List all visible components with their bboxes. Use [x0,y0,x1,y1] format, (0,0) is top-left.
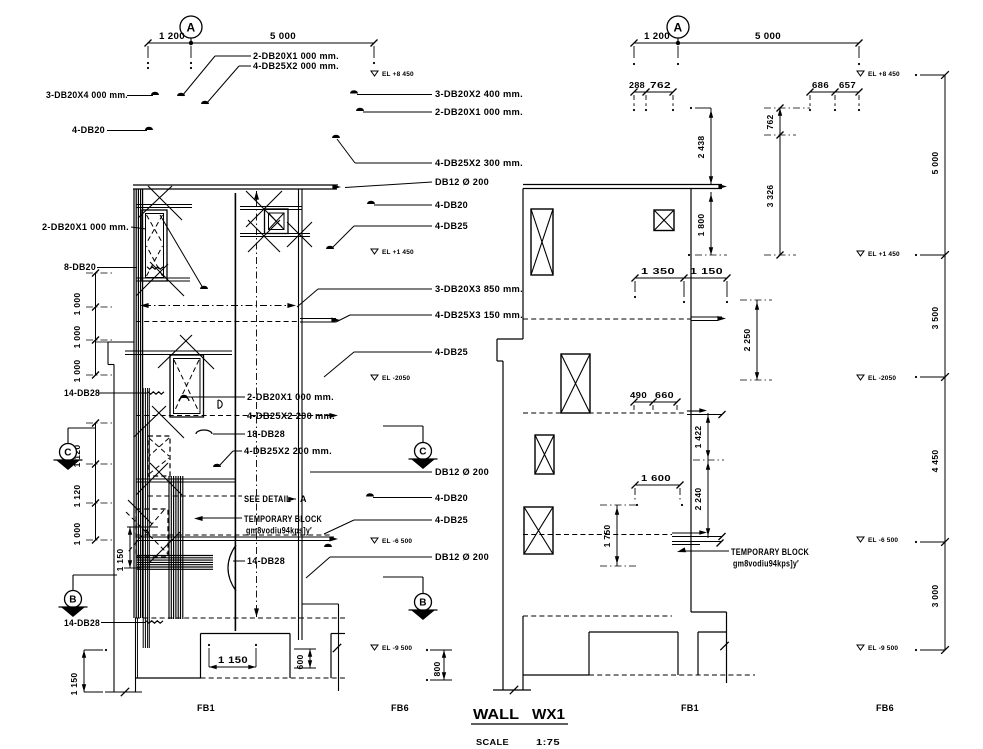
svg-text:288: 288 [629,80,645,90]
svg-text:5 000: 5 000 [930,152,940,175]
left concrete outline with step [107,342,109,365]
right view right wall face [690,189,692,613]
stirrup box B3 (middle, dashed X) [170,355,204,417]
svg-text:762: 762 [650,80,671,90]
svg-text:2 250: 2 250 [742,329,752,352]
svg-text:4 450: 4 450 [930,450,940,473]
level markers EL (right column) [857,71,864,76]
transverse bar pair below slab at B1 [136,204,192,206]
svg-text:3 000: 3 000 [930,585,940,608]
top dimension line right (1 200 / 5 000) [634,42,859,44]
top slab double line (left view) [133,184,338,186]
dim 1 150 (wall, rotated) [129,527,131,568]
svg-text:C: C [64,448,72,459]
dim 1 150 (bottom left) [83,650,85,692]
leader wire [107,130,147,132]
dashed level line y413 with slab stub [523,412,687,414]
dim 490 / 660 [634,401,677,403]
left wall face rebar bundle [133,189,135,618]
right view left wall face [522,189,524,340]
level marker EL +1 450 (left) [371,249,378,254]
svg-text:4-DB20: 4-DB20 [435,493,468,503]
svg-text:4-DB25X2 000 mm.: 4-DB25X2 000 mm. [253,61,339,71]
svg-text:4-DB25: 4-DB25 [435,221,468,231]
dim 686 / 657 [810,91,859,93]
dim 1 150 (footing) [208,648,210,667]
footing right vertical [330,634,332,679]
dim 800 (right of left view) [443,650,445,680]
hatched box H2 (small top) [654,210,674,231]
pedestal step right of wall [302,603,339,605]
section marker C (left) [67,428,69,445]
cross ticks at B1 bottom [136,264,168,296]
svg-text:FB1: FB1 [681,703,699,713]
dashed level line y415 with arrow [136,415,334,417]
svg-text:4-DB20: 4-DB20 [435,200,468,210]
svg-text:A: A [674,21,683,35]
svg-text:DB12 Ø 200: DB12 Ø 200 [435,552,489,562]
svg-text:SEE DETAIL: SEE DETAIL [244,494,291,504]
svg-text:WALL: WALL [473,707,519,723]
svg-text:FB6: FB6 [876,703,894,713]
mid beam bar pair [125,350,232,352]
svg-text:1 422: 1 422 [693,426,703,449]
section marker B (left) [72,575,74,592]
svg-text:4-DB25X2 300 mm.: 4-DB25X2 300 mm. [435,158,523,168]
svg-text:1 200: 1 200 [644,31,670,41]
grid bubble A (right) [667,16,689,38]
svg-text:2-DB20X1 000 mm.: 2-DB20X1 000 mm. [253,51,339,61]
dim 2 240 [707,460,709,538]
section marker B (right) [422,577,424,595]
svg-text:1 750: 1 750 [602,525,612,548]
svg-text:TEMPORARY BLOCK: TEMPORARY BLOCK [244,514,322,524]
dome hook inside B3 [179,397,189,401]
svg-text:2-DB20X1 000 mm.: 2-DB20X1 000 mm. [42,222,129,232]
svg-text:EL -9 500: EL -9 500 [382,645,412,652]
middle rebar line [234,193,236,631]
master dimension line right [944,75,946,650]
svg-text:3 500: 3 500 [930,307,940,330]
cross ticks below B3 [134,406,166,437]
svg-text:3 326: 3 326 [765,185,775,208]
hatched box H1 (tall) [531,209,553,275]
cross ticks at B1 top [138,186,172,218]
cross ticks at B3 top [158,335,192,368]
level marker EL +8 450 (left) [371,71,378,76]
svg-text:EL -6 500: EL -6 500 [868,537,898,544]
svg-text:1 000: 1 000 [72,360,82,383]
svg-text:WX1: WX1 [532,707,565,723]
dashed level line y321 with slab stub arrow [136,321,300,323]
svg-text:EL -6 500: EL -6 500 [382,538,412,545]
svg-text:14-DB28: 14-DB28 [64,388,100,398]
leader wire [127,95,153,97]
svg-text:14-DB28: 14-DB28 [247,556,285,566]
svg-text:SCALE: SCALE [476,738,509,747]
svg-text:B: B [419,598,427,609]
svg-text:A: A [300,494,307,504]
dim 600 (footing) [309,649,311,668]
svg-text:A: A [187,21,196,35]
stirrup box B5 (dashed with X) [136,509,168,557]
svg-text:B: B [69,595,77,606]
svg-text:1 150: 1 150 [69,673,79,696]
cross ticks at right wall below B2 [287,222,312,247]
right view bottom line with break tick [493,689,531,691]
right wall step down [691,611,727,613]
svg-text:EL -2050: EL -2050 [868,375,896,382]
wall step to outer face [497,338,523,340]
dashed level line y535 [136,534,330,536]
bar pair below B1 [136,277,190,279]
svg-text:1 120: 1 120 [72,485,82,508]
leader wire to hook [239,65,251,67]
cross ticks below B4 [136,463,168,495]
svg-text:1 000: 1 000 [72,326,82,349]
hatched box H5 [524,507,553,554]
horizontal rebar bundle (dark band) [137,555,213,557]
svg-text:FB6: FB6 [391,703,409,713]
svg-text:762: 762 [765,114,775,129]
svg-text:4-DB25: 4-DB25 [435,515,468,525]
svg-text:600: 600 [295,654,305,669]
svg-text:3-DB20X4 000 mm.: 3-DB20X4 000 mm. [46,90,128,100]
stirrup box B1 (top left, dashed bowtie) [142,210,167,281]
centerline dash-dot with arrows [256,199,258,610]
svg-text:660: 660 [655,390,674,400]
svg-text:490: 490 [630,390,647,400]
grid bubble A (left) [180,16,202,38]
left extension to wall at y342 [96,341,109,343]
dim 762 / 3 326 [779,108,781,255]
svg-text:2-DB20X1 000 mm.: 2-DB20X1 000 mm. [247,392,334,402]
svg-text:EL +1 450: EL +1 450 [868,251,900,258]
cross ticks at B2 [246,191,282,227]
svg-text:1 000: 1 000 [72,523,82,546]
svg-text:800: 800 [432,661,442,676]
bar pair under B2 [240,233,310,235]
stirrup box B4 (dashed) [148,436,170,476]
svg-text:2 240: 2 240 [693,488,703,511]
right wall face double line [298,189,300,640]
level marker EL -6 500 (left) [371,538,378,543]
svg-text:5 000: 5 000 [270,31,296,41]
dim 1 422 [707,413,709,460]
cross ticks near B5 [150,532,180,562]
svg-text:3-DB20X3 850 mm.: 3-DB20X3 850 mm. [435,284,523,294]
bar pair above B2 [240,206,302,208]
svg-text:FB1: FB1 [197,703,215,713]
svg-text:4-DB25X3 150 mm.: 4-DB25X3 150 mm. [435,310,523,320]
svg-text:EL -2050: EL -2050 [382,375,410,382]
dim 1 600 [635,484,680,486]
diagonal bar with hook from B1 [160,215,203,288]
svg-text:gm8vodiu94kps]y′: gm8vodiu94kps]y′ [733,559,799,569]
svg-text:4-DB25X2 200 mm.: 4-DB25X2 200 mm. [244,446,332,456]
svg-text:1 350: 1 350 [641,266,675,276]
level marker EL -9 500 (left) [371,645,378,650]
svg-text:EL +1 450: EL +1 450 [382,249,414,256]
svg-text:8-DB20: 8-DB20 [64,262,96,272]
svg-text:1 800: 1 800 [696,214,706,237]
dim 288 / 762 (top of right view) [634,91,673,93]
svg-text:4-DB25X2 200 mm.: 4-DB25X2 200 mm. [247,411,335,421]
wall bottom break line [105,691,142,693]
svg-text:1 600: 1 600 [641,473,671,483]
level marker EL -2050 (left) [371,375,378,380]
bar pair at y479 [136,478,236,480]
svg-text:DB12 Ø 200: DB12 Ø 200 [435,467,489,477]
svg-text:EL +8 450: EL +8 450 [868,71,900,78]
svg-text:2 438: 2 438 [696,136,706,159]
long bar pair with arrow (EL -6 500 level) [136,536,334,538]
svg-text:1:75: 1:75 [536,738,560,747]
dashed level line y618 [135,617,345,619]
dashed level line y319 with slab stub [523,318,691,320]
svg-text:x: x [146,528,151,537]
svg-text:1 000: 1 000 [72,293,82,316]
dashed level line y616 [523,615,672,617]
top slab double line (right view) [523,184,722,186]
svg-text:4-DB25: 4-DB25 [435,347,468,357]
right view footing [589,631,678,633]
svg-text:686: 686 [812,80,829,90]
dim 1 350 / 1 150 [635,277,727,279]
dim 1 800 [710,192,712,255]
svg-text:4-DB20: 4-DB20 [72,125,105,135]
svg-text:1 150: 1 150 [115,549,125,572]
top dimension line left (1 200 / 5 000) [148,42,374,44]
section marker C (right) [422,426,424,444]
dim 2 438 [710,108,712,184]
svg-text:TEMPORARY BLOCK: TEMPORARY BLOCK [731,547,809,557]
left footing outline [201,633,291,635]
svg-text:DB12 Ø 200: DB12 Ø 200 [435,177,489,187]
svg-text:1 150: 1 150 [218,655,248,665]
svg-text:5 000: 5 000 [755,31,781,41]
svg-text:657: 657 [839,80,856,90]
svg-text:18-DB28: 18-DB28 [247,429,285,439]
svg-text:2-DB20X1 000 mm.: 2-DB20X1 000 mm. [435,107,523,117]
stirrup box B2 (top middle, X) [265,209,289,234]
dash-dot bar with arrows (3-DB20X3) [144,305,292,307]
svg-text:EL -9 500: EL -9 500 [868,645,898,652]
svg-text:3-DB20X2 400 mm.: 3-DB20X2 400 mm. [435,89,523,99]
SEE DETAIL A label with dashed leader [148,495,242,497]
svg-text:EL +8 450: EL +8 450 [382,71,414,78]
dashed level line y534 with slab stubs [523,534,672,536]
svg-text:14-DB28: 14-DB28 [64,618,100,628]
svg-text:1 150: 1 150 [690,266,723,276]
dim 1 750 [616,505,618,566]
vertical rebar bundle 2 [168,476,170,619]
bar hook D-shape [218,400,222,408]
left dim string 1 120/1 120/1 000 [95,423,97,540]
svg-text:C: C [419,447,427,458]
svg-text:gm8vodiu94kps]y′: gm8vodiu94kps]y′ [246,526,312,536]
svg-text:1 200: 1 200 [159,31,185,41]
leader wire to hook [215,55,251,57]
left dim string 1 000 x3 [95,273,97,375]
hatched box H4 [535,435,554,474]
hatched box H3 [561,354,590,413]
dim 2 250 [756,300,758,380]
